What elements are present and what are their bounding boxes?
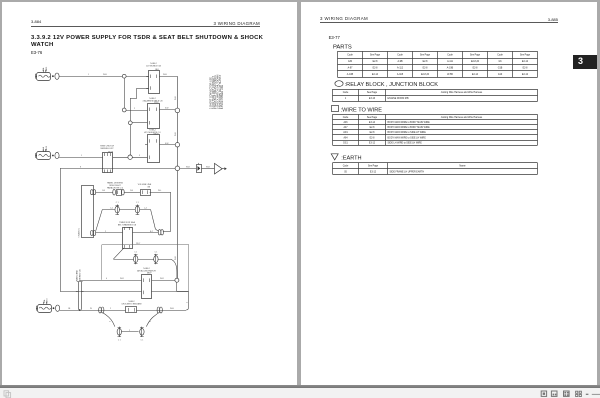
wire: bus node F to node G <box>177 147 179 166</box>
wire: node H down to lower bus <box>176 282 178 291</box>
svg-text:E2-8,20: E2-8,20 <box>421 74 430 76</box>
diode / noise filter D1 <box>197 165 202 173</box>
svg-text:CHUCKER 3 RELEASE: CHUCKER 3 RELEASE <box>121 302 142 305</box>
bypass wire between lamps <box>122 331 139 333</box>
harness boundary 2 right edge <box>188 245 190 292</box>
svg-text:WATCH: WATCH <box>31 42 54 48</box>
svg-text:Code: Code <box>343 117 349 119</box>
svg-text:3.3.9.2 12V POWER SUPPLY FOR T: 3.3.9.2 12V POWER SUPPLY FOR TSDR & SEAT… <box>31 35 264 41</box>
wire: VL right, down to connector D5 <box>150 192 171 194</box>
svg-text:See Page: See Page <box>470 54 481 56</box>
svg-text:E2-8: E2-8 <box>370 137 376 139</box>
svg-text:A-9B: A-9B <box>397 60 403 63</box>
fusible link FL2 (second supply) <box>37 152 51 160</box>
wire: lamp row right diagonal to connector D5 <box>151 210 156 229</box>
svg-text:E3-76: E3-76 <box>31 50 43 55</box>
wire: node A down left column <box>124 78 126 110</box>
harness boundary (gray enclosure) bottom edge <box>60 291 189 293</box>
svg-text:5 RADIO 1: 5 RADIO 1 <box>78 227 81 238</box>
svg-text:E2-8: E2-8 <box>523 68 529 70</box>
svg-text:W-B: W-B <box>175 132 177 136</box>
svg-text::RELAY BLOCK , JUNCTION BLOCK: :RELAY BLOCK , JUNCTION BLOCK <box>345 82 439 88</box>
svg-text:AM 1: AM 1 <box>45 66 48 72</box>
svg-text:SIDE FRAME LH UPPER EARTH: SIDE FRAME LH UPPER EARTH <box>390 170 425 173</box>
junction node A on supply wire <box>122 74 126 78</box>
svg-text:E2-12: E2-12 <box>522 61 529 63</box>
junction node D (to R3) <box>128 155 132 159</box>
svg-text:E2-8: E2-8 <box>370 127 376 129</box>
svg-text:8: 8 <box>80 166 81 168</box>
svg-text:See Page: See Page <box>420 54 431 56</box>
svg-text:W-R: W-R <box>120 278 124 280</box>
svg-text:A-10B: A-10B <box>347 73 354 76</box>
connector D5 <box>158 230 161 235</box>
svg-text:MB-P: MB-P <box>147 272 152 274</box>
svg-text:SENSILE LIST: SENSILE LIST <box>100 148 114 150</box>
svg-text:Name: Name <box>459 166 466 168</box>
lamp L3 <box>134 256 138 263</box>
svg-text:Code: Code <box>343 92 349 94</box>
svg-text:See Page: See Page <box>520 54 531 56</box>
harness boundary (gray enclosure) top edge / wire to node G <box>60 168 175 170</box>
svg-text:W-R: W-R <box>160 278 164 280</box>
svg-text:ENGINE ROOM R/B: ENGINE ROOM R/B <box>388 98 410 100</box>
fusible link FL1 (top supply) <box>37 73 51 81</box>
svg-text:4 ALARM MOBILE CB: 4 ALARM MOBILE CB <box>143 100 164 103</box>
svg-text:AM 3: AM 3 <box>46 298 49 304</box>
connector pair on JB1 bottom <box>91 231 94 236</box>
svg-text:A47: A47 <box>343 126 348 129</box>
svg-text:STEREO CB: STEREO CB <box>79 269 81 281</box>
svg-text:C 1: C 1 <box>116 202 119 204</box>
wire: node C down to node D <box>130 125 132 156</box>
svg-text:15A: 15A <box>42 67 45 71</box>
svg-text:W: W <box>90 308 92 310</box>
svg-text:2: 2 <box>105 231 106 233</box>
svg-text::WIRE TO WIRE: :WIRE TO WIRE <box>341 108 383 114</box>
wire: node B to relay R2 pin <box>126 110 147 112</box>
svg-text:2: 2 <box>134 108 135 110</box>
svg-text:E2-8: E2-8 <box>373 68 379 70</box>
bypass wire left diagonal <box>103 313 115 327</box>
wire: shock watch to node D to R3 <box>113 157 128 159</box>
svg-text:BODY MAIN WIRE to SIDE LH WIRE: BODY MAIN WIRE to SIDE LH WIRE <box>388 136 427 139</box>
svg-text:BELT WARNING CB: BELT WARNING CB <box>118 223 137 226</box>
lamp L2 <box>135 206 139 213</box>
svg-text:2R-Y: 2R-Y <box>136 243 141 245</box>
harness boundary (gray enclosure) left edge <box>60 168 62 291</box>
svg-text:AM 2: AM 2 <box>45 145 48 151</box>
svg-text:E3-14: E3-14 <box>369 122 376 124</box>
connector D7 on lower bus <box>157 307 160 313</box>
wire: timer bottom diagonal to lamp row 2 <box>113 248 124 259</box>
svg-text:E2-8: E2-8 <box>423 68 429 70</box>
wire: JB1 to fuse connector F4 <box>96 192 113 194</box>
viewer bottom toolbar <box>0 388 600 398</box>
svg-text:2: 2 <box>110 308 111 310</box>
svg-text:12V MOBILE CB: 12V MOBILE CB <box>146 65 162 67</box>
svg-text:15A: 15A <box>42 146 45 150</box>
toolbar zoom minus <box>586 394 589 395</box>
double-bar connector DB1 <box>78 282 80 310</box>
svg-text:GB: GB <box>147 186 150 188</box>
lamp L1 <box>102 209 150 211</box>
svg-text:E2-14: E2-14 <box>472 74 479 76</box>
svg-text:Code: Code <box>397 54 403 56</box>
wire: lamp row left diagonal to JB1 <box>96 210 103 231</box>
svg-text:Joining Wire Harness and Wire: Joining Wire Harness and Wire Harness <box>441 91 483 94</box>
svg-text:C 1: C 1 <box>155 252 158 254</box>
svg-text:Code: Code <box>347 54 353 56</box>
svg-text:A46: A46 <box>343 121 348 124</box>
svg-text:See Page: See Page <box>368 166 379 168</box>
junction dot: DB1 meets lower bus <box>79 309 81 311</box>
svg-text:1: 1 <box>345 98 347 100</box>
svg-text:3 WIRING DIAGRAM: 3 WIRING DIAGRAM <box>213 21 260 26</box>
svg-text:A-111: A-111 <box>447 60 454 63</box>
svg-text:C-1: C-1 <box>110 208 113 210</box>
svg-text:E2-8,20: E2-8,20 <box>471 61 480 63</box>
svg-text:A-97: A-97 <box>348 67 354 70</box>
wire to wire heading <box>332 106 339 112</box>
svg-text:E2-8: E2-8 <box>373 61 379 63</box>
harness boundary 2 (gray) top and left edges <box>101 245 103 280</box>
fusible link FL3 (lower supply) <box>38 305 52 313</box>
connector D6 on lower bus <box>99 307 102 313</box>
svg-text:See Page: See Page <box>370 54 381 56</box>
svg-text:2-B: 2-B <box>130 190 134 192</box>
svg-text:E3-16: E3-16 <box>369 98 376 100</box>
connector pair on JB1 top <box>91 190 94 195</box>
connector pigtail C2 after FL2 <box>55 152 59 158</box>
svg-text:Code: Code <box>343 166 349 168</box>
wire: node E to relay R2 <box>159 109 175 111</box>
svg-text:BODY MAIN WIRE to BODY MAIN WI: BODY MAIN WIRE to BODY MAIN WIRE <box>388 126 431 129</box>
relay block heading <box>335 81 343 87</box>
svg-text:4: 4 <box>106 278 107 280</box>
relay R3 left stub pin <box>145 144 147 146</box>
wire: double-bar connector to relay resistor RR1 <box>80 280 142 282</box>
bottom-left thumbnails icon <box>4 391 9 396</box>
svg-text:E2-12: E2-12 <box>522 74 529 76</box>
junction node H <box>175 278 179 282</box>
svg-text:AD1: AD1 <box>343 131 348 134</box>
wire: bus node G down to node H <box>177 171 179 279</box>
svg-text:BODY MAIN WIRE to SIDE LH WIRE: BODY MAIN WIRE to SIDE LH WIRE <box>388 131 427 134</box>
lamp row 2 wire <box>113 259 170 261</box>
svg-text:C 1: C 1 <box>118 340 121 342</box>
wire to wire table <box>333 114 538 116</box>
svg-text:G1B: G1B <box>498 68 503 70</box>
svg-text:W-5B: W-5B <box>447 74 453 76</box>
junction block JB1 <box>82 186 94 238</box>
svg-text:E3-77: E3-77 <box>329 35 341 40</box>
wire: R1 output to main bus <box>159 76 177 78</box>
chapter tab 3 <box>573 55 597 69</box>
svg-text:A30: A30 <box>348 60 353 63</box>
svg-text:6-W: 6-W <box>165 108 169 110</box>
node dot after FL3 <box>53 307 55 309</box>
wire: FL1 to relay block R1 <box>59 76 149 78</box>
wire: node C to relay R2 lower pin <box>132 122 147 124</box>
svg-text:3-884: 3-884 <box>31 19 42 24</box>
toolbar zoom slider track <box>592 393 600 396</box>
svg-text:C 1: C 1 <box>134 252 137 254</box>
lamp L4 <box>154 256 158 263</box>
toolbar icon: grid outline view <box>576 391 578 393</box>
svg-text:3 WIRING DIAGRAM: 3 WIRING DIAGRAM <box>320 16 368 21</box>
svg-text:W-B: W-B <box>103 74 107 76</box>
svg-text:8 TSDR POWER LINE: 8 TSDR POWER LINE <box>221 84 224 109</box>
svg-text:Code: Code <box>497 54 503 56</box>
node dot after FL1 <box>52 75 54 77</box>
svg-text:Code: Code <box>447 54 453 56</box>
wire: lamp row 2 curve down to node H <box>170 259 177 278</box>
svg-text:05: 05 <box>344 171 347 173</box>
viewer bottom edge <box>0 385 600 388</box>
svg-text:1: 1 <box>88 74 89 76</box>
wire: timer unit to connector D5 <box>132 232 158 234</box>
svg-text:W-B: W-B <box>206 166 210 168</box>
svg-text:E3-12: E3-12 <box>370 171 377 173</box>
svg-text:3: 3 <box>150 321 152 322</box>
svg-text:E2-8: E2-8 <box>473 68 479 70</box>
earth heading <box>331 154 338 160</box>
junction node E on bus <box>175 108 180 113</box>
wire: bus node E to node F <box>177 113 179 143</box>
toolbar icon: facing pages view <box>551 391 557 396</box>
wire: JB1 bottom to timer unit <box>96 232 123 234</box>
main vertical bus wire <box>177 76 179 108</box>
svg-text:W-L: W-L <box>158 190 161 192</box>
svg-text:DS1: DS1 <box>343 142 348 144</box>
junction node B (left column) <box>122 108 126 112</box>
wire: FL2 to shock watch unit and relay R3 <box>59 157 103 159</box>
bypass lamp L6 <box>140 328 144 335</box>
svg-text:PARTS: PARTS <box>333 45 352 51</box>
svg-text:BODY MAIN WIRE to BODY MAIN WI: BODY MAIN WIRE to BODY MAIN WIRE <box>388 121 431 124</box>
svg-text:W-B: W-B <box>186 166 190 168</box>
svg-text:W-B: W-B <box>163 74 167 76</box>
arrow output of T1 <box>222 168 224 170</box>
PARTS table <box>338 51 538 53</box>
svg-text:See Page: See Page <box>367 117 378 119</box>
svg-text:L-4: L-4 <box>144 208 147 210</box>
toolbar icon: single page view <box>541 391 546 396</box>
earth table <box>333 162 538 164</box>
svg-text:A-11B: A-11B <box>397 73 404 76</box>
bypass lamp L5 <box>117 328 121 335</box>
svg-text:3: 3 <box>110 321 112 322</box>
svg-text:SIDE LH WIRE to SIDE LH WIRE: SIDE LH WIRE to SIDE LH WIRE <box>388 141 423 144</box>
svg-text:1-B: 1-B <box>102 190 106 192</box>
left page header rule <box>31 26 260 28</box>
svg-text:RADIO AND: RADIO AND <box>76 269 79 281</box>
svg-text:A-19B: A-19B <box>447 67 454 70</box>
buzzer/amplifier T1 <box>215 163 223 174</box>
svg-text:E2-8: E2-8 <box>423 61 429 63</box>
svg-text:1: 1 <box>81 155 82 157</box>
svg-text:G6: G6 <box>498 61 502 63</box>
wire: node G to diode D1 <box>180 168 197 170</box>
svg-text:Joining Wire Harness and Wire: Joining Wire Harness and Wire Harness <box>441 116 483 119</box>
svg-text:G10: G10 <box>498 74 503 76</box>
bypass wire right diagonal <box>146 313 158 327</box>
svg-text:W-B: W-B <box>170 308 174 310</box>
left page sheet <box>2 2 297 385</box>
svg-text:A64: A64 <box>343 136 348 139</box>
svg-text:E2-14: E2-14 <box>372 74 379 76</box>
junction node G on bus <box>175 166 180 171</box>
wire: node F to relay R3 <box>159 144 175 146</box>
svg-text:PARACHUTE LI 4: PARACHUTE LI 4 <box>107 186 124 189</box>
connector pigtail C3 after FL3 <box>56 305 60 311</box>
svg-text:E3-12: E3-12 <box>369 142 376 144</box>
wire: F4 to volume line unit <box>124 192 140 194</box>
svg-text:See Page: See Page <box>367 92 378 94</box>
wire: R1 lower pin jog to node C <box>137 88 149 90</box>
svg-text:4: 4 <box>186 302 188 303</box>
right page sheet <box>301 2 598 385</box>
node dot after FL2 <box>52 155 54 157</box>
svg-text:W-B: W-B <box>175 96 177 100</box>
svg-text:W-B: W-B <box>175 256 177 260</box>
svg-text:E2-8: E2-8 <box>370 132 376 134</box>
svg-text:3-885: 3-885 <box>548 17 559 22</box>
relay block table <box>333 89 538 91</box>
svg-text:1B: 1B <box>68 308 71 310</box>
svg-text:15A: 15A <box>43 299 46 303</box>
connector pigtail C1 after FL1 <box>55 73 59 79</box>
svg-text:2: 2 <box>129 330 130 332</box>
svg-text::EARTH: :EARTH <box>341 156 361 162</box>
svg-text:6-W: 6-W <box>165 143 169 145</box>
toolbar icon: grid view filled <box>564 391 570 396</box>
svg-text:3: 3 <box>139 155 140 157</box>
svg-text:A-112: A-112 <box>397 67 404 70</box>
wire: RR1 to node H <box>152 280 175 282</box>
lower bus wire <box>60 310 186 312</box>
junction node F on bus <box>175 143 179 147</box>
svg-text:C 1: C 1 <box>141 340 144 342</box>
junction node C <box>128 121 132 125</box>
svg-text:C 1: C 1 <box>136 202 139 204</box>
wire: D1 to buzzer T1 <box>202 168 215 170</box>
